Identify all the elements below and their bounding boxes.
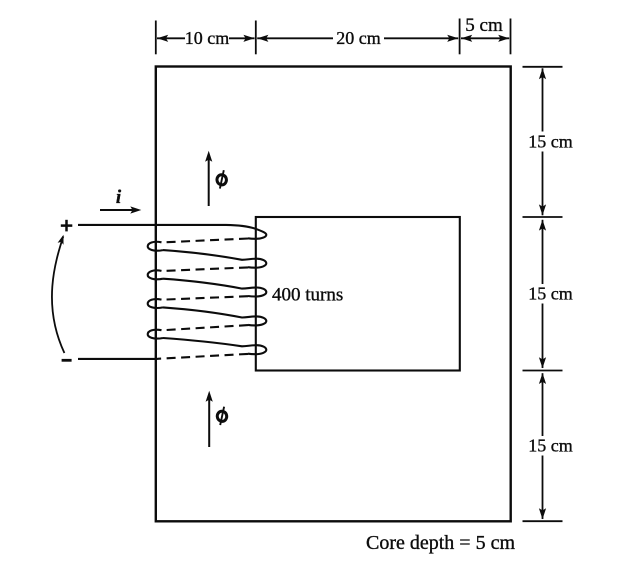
right dimension tick 3 [523,370,563,372]
svg-text:15 cm: 15 cm [528,284,573,304]
right dimension tick 4 [523,520,563,522]
coil turn 3 back (dashed) [162,296,249,300]
svg-text:10 cm: 10 cm [185,28,230,48]
coil turn 2 back (dashed) [162,267,249,271]
label phi top [216,170,227,188]
coil turn 1 back (dashed) [162,239,249,243]
coil turn 4 back (dashed) [162,325,249,330]
dimension 20 cm arrows and line [257,35,458,42]
coil turn 2 front and right cap [163,250,266,268]
voltage reference arc [52,234,67,353]
svg-text:15 cm: 15 cm [528,435,573,455]
coil turn 3 left cap [148,299,163,308]
coil turn 5 back (dashed) [158,354,249,359]
minus terminal [62,359,72,362]
wire top lead and coil turn 1 right cap [78,225,266,239]
dimension 10 cm arrows and line [157,35,255,42]
right dimension 15 cm section 2 [539,220,546,369]
current arrow [100,206,141,213]
coil turn 4 front and right cap [163,307,266,325]
coil turn 5 front and right cap [163,338,266,354]
svg-text:15 cm: 15 cm [528,131,573,151]
core window rectangle [256,217,460,371]
coil turn 4 left cap [148,330,163,339]
coil turn 3 front and right cap [163,279,266,297]
dimension 5 cm arrows and line [461,35,509,42]
right dimension 15 cm section 3 [539,373,546,519]
plus terminal [61,220,73,232]
flux arrow top [205,151,212,206]
svg-text:400 turns: 400 turns [272,285,343,306]
wire bottom lead [78,358,158,360]
core outer rectangle [156,67,511,522]
right dimension 15 cm section 1 [539,68,546,215]
svg-text:5 cm: 5 cm [465,15,503,36]
svg-text:20 cm: 20 cm [336,28,381,48]
coil turn 2 left cap [148,270,163,279]
right dimension tick 1 [523,66,563,68]
svg-text:Core depth = 5 cm: Core depth = 5 cm [366,532,515,554]
svg-text:i: i [116,187,122,208]
coil turn 1 left cap [148,242,163,251]
label phi bottom [217,407,228,425]
top dimension tick 1 [155,21,157,55]
top dimension tick 3 [459,19,461,55]
flux arrow bottom [206,391,213,447]
top dimension tick 2 [255,21,257,55]
right dimension tick 2 [523,216,563,218]
top dimension tick 4 [510,19,512,55]
